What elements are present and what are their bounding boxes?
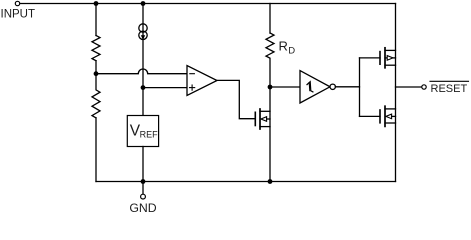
current source I1 bbox=[139, 24, 147, 40]
wire R1 bottom lead to divider node bbox=[95, 61, 97, 74]
voltage reference VREF bbox=[127, 116, 158, 147]
svg-text:D: D bbox=[288, 46, 295, 57]
node A (top rail to R1) bbox=[94, 1, 99, 6]
svg-text:RESET: RESET bbox=[431, 83, 468, 95]
node B (divider tap) bbox=[94, 71, 99, 76]
ground bbox=[141, 194, 146, 199]
wire RD pull-up top lead bbox=[269, 4, 271, 34]
resistor R1 bbox=[92, 36, 100, 61]
label RD bbox=[279, 38, 296, 56]
wire node E down to Q1 drain bbox=[269, 87, 271, 182]
wire RESET output bbox=[396, 86, 422, 88]
label RESET (with overbar) bbox=[430, 81, 469, 95]
wire Q2 gate lead bbox=[360, 57, 381, 59]
resistor RD bbox=[266, 33, 274, 87]
node C (top rail to current source) bbox=[141, 1, 146, 6]
wire GND terminal stub bbox=[142, 182, 144, 195]
wire node E to inverter input bbox=[270, 86, 300, 88]
label VREF bbox=[130, 122, 158, 139]
pin inverter output bubble bbox=[330, 84, 335, 89]
svg-text:R: R bbox=[279, 38, 288, 53]
wire divider tap to comparator minus input (with hop) bbox=[96, 69, 187, 74]
wire VREF to ground rail bbox=[142, 147, 144, 182]
wire current source feed bbox=[142, 4, 144, 116]
wire output stage stack (Q2 source to Q3 source) bbox=[395, 4, 397, 182]
transistor Q3 (NMOS) bbox=[380, 106, 396, 126]
op-amp U1 (comparator) bbox=[187, 66, 217, 96]
svg-text:INPUT: INPUT bbox=[1, 9, 36, 21]
node F (Q1 source on ground rail) bbox=[268, 179, 273, 184]
node G (VREF return on ground rail) bbox=[141, 179, 146, 184]
wire Q3 gate lead bbox=[360, 115, 381, 117]
node E (drain of Q1 / inverter input) bbox=[268, 85, 273, 90]
label 1 (hysteresis mark) bbox=[307, 82, 313, 92]
wire comparator output bbox=[217, 80, 255, 118]
svg-text:REF: REF bbox=[140, 129, 159, 139]
pin minus bbox=[190, 73, 195, 75]
terminal INPUT bbox=[15, 1, 19, 5]
wire plus input bbox=[143, 87, 187, 89]
terminal RESET bbox=[422, 85, 426, 89]
wire R1 top lead bbox=[95, 4, 97, 36]
wire ground rail (GND net) bbox=[96, 181, 396, 183]
inverter U2 bbox=[300, 71, 330, 103]
node D (reference node to plus input) bbox=[141, 85, 146, 90]
resistor R2 bbox=[92, 74, 100, 118]
pin plus bbox=[190, 85, 195, 90]
svg-text:GND: GND bbox=[129, 201, 156, 214]
transistor Q1 (NMOS) bbox=[255, 109, 270, 129]
wire R2 bottom lead to ground rail bbox=[95, 118, 97, 182]
transistor Q2 (PMOS) bbox=[380, 48, 396, 68]
wire top rail (INPUT net) bbox=[20, 3, 396, 5]
wire gate bus bbox=[359, 58, 361, 117]
wire inverter output to gate bus bbox=[335, 86, 359, 88]
